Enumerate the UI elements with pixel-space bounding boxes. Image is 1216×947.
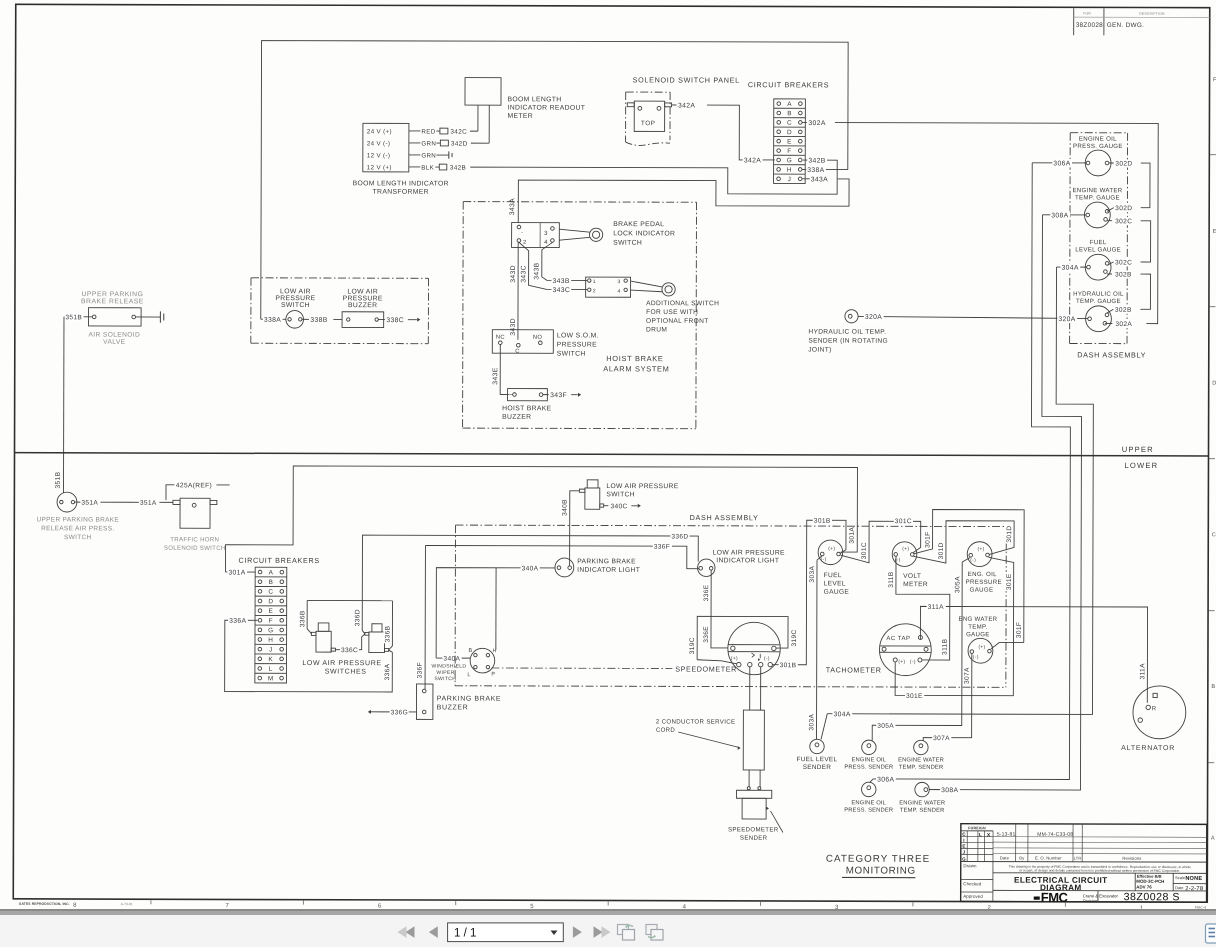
wire 342D (GRN) [409, 142, 420, 144]
svg-text:336B: 336B [384, 625, 391, 642]
svg-text:308A: 308A [1051, 212, 1068, 219]
low air pressure indicator light [698, 559, 715, 576]
2 conductor service cord [743, 710, 764, 770]
svg-text:Revisions: Revisions [1122, 856, 1141, 861]
svg-text:A-73-81: A-73-81 [121, 902, 133, 906]
low air pressure buzzer (upper) [342, 312, 384, 328]
previous-page button [429, 926, 438, 938]
wire 343A [802, 178, 810, 180]
svg-text:(+): (+) [731, 656, 738, 662]
svg-text:L: L [467, 672, 470, 678]
svg-text:INDICATOR LIGHT: INDICATOR LIGHT [577, 567, 640, 574]
svg-text:311A: 311A [928, 604, 945, 611]
wire 338C [378, 319, 384, 321]
svg-text:LOW AIR PRESSURE: LOW AIR PRESSURE [606, 483, 678, 490]
svg-text:A: A [787, 101, 792, 108]
svg-text:E: E [1213, 229, 1216, 235]
svg-text:Division: Division [1083, 898, 1098, 903]
svg-text:336D: 336D [671, 533, 688, 540]
svg-text:351B: 351B [65, 314, 82, 321]
windshield wiper switch [470, 648, 495, 673]
svg-text:Approved: Approved [963, 894, 983, 899]
svg-text:C: C [1212, 532, 1216, 538]
svg-text:VOLT: VOLT [903, 573, 921, 580]
svg-text:304A: 304A [833, 711, 850, 718]
svg-text:338C: 338C [386, 317, 404, 324]
svg-text:TEMP.: TEMP. [968, 624, 987, 631]
wire 336F [425, 545, 698, 568]
wire 340C [604, 505, 609, 507]
wire 340B [570, 491, 580, 566]
svg-text:NONE: NONE [1185, 876, 1202, 882]
svg-text:3: 3 [544, 231, 548, 237]
svg-text:JOINT): JOINT) [808, 347, 831, 354]
svg-text:38Z0028 S: 38Z0028 S [1124, 891, 1180, 903]
svg-text:LOWER: LOWER [1124, 461, 1158, 470]
eng oil pressure gauge (lower) [967, 542, 992, 567]
wire 338A label at switch [261, 318, 286, 320]
wire 336B rail [307, 599, 392, 601]
svg-text:ENG. OIL: ENG. OIL [968, 571, 997, 578]
svg-text:320A: 320A [1058, 316, 1075, 323]
svg-text:340A: 340A [522, 565, 539, 572]
wire wiper H pin [495, 568, 497, 650]
svg-text:304A: 304A [1062, 265, 1079, 272]
svg-text:CIRCUIT BREAKERS: CIRCUIT BREAKERS [238, 556, 319, 565]
svg-text:340A: 340A [443, 656, 460, 663]
svg-text:343B: 343B [552, 278, 569, 285]
svg-text:or in part, of design and deta: or in part, of design and details contai… [1019, 868, 1180, 872]
svg-text:MOD-3C-PCH: MOD-3C-PCH [1136, 879, 1164, 884]
svg-text:351A: 351A [140, 500, 157, 507]
svg-text:306A: 306A [1053, 160, 1070, 167]
svg-text:DESCRIPTION: DESCRIPTION [1139, 12, 1165, 16]
solenoid switch panel (dashed enclosure) [626, 91, 670, 93]
svg-text:Date: Date [1175, 885, 1184, 890]
low air pressure switch L2 (solenoid) [372, 624, 382, 632]
svg-text:-: - [521, 230, 523, 236]
svg-text:302C: 302C [1115, 259, 1132, 266]
svg-text:P: P [491, 672, 495, 678]
svg-text:306A: 306A [877, 776, 894, 783]
wire 302A [802, 121, 807, 123]
wire 301B [772, 520, 846, 665]
dash assembly enclosure (upper) [1070, 132, 1127, 134]
svg-text:ENGINE WATER: ENGINE WATER [1072, 187, 1122, 194]
svg-text:343D: 343D [510, 265, 517, 283]
additional switch (optional front drum) [586, 277, 631, 297]
speedometer sender [737, 790, 772, 798]
svg-text:GAUGE: GAUGE [966, 631, 990, 638]
svg-text:BLK: BLK [421, 164, 434, 171]
wire 342B (BLK) [409, 166, 420, 168]
svg-text:301A: 301A [228, 569, 245, 576]
wire 351B [64, 316, 92, 318]
svg-text:2: 2 [523, 240, 526, 246]
wire 308A [1042, 214, 1085, 216]
svg-text:LEVEL: LEVEL [824, 580, 846, 587]
svg-text:(-): (-) [821, 557, 827, 563]
svg-text:DASH ASSEMBLY: DASH ASSEMBLY [1077, 350, 1146, 359]
svg-text:305A: 305A [954, 576, 961, 593]
svg-text:B: B [269, 579, 274, 586]
svg-text:3: 3 [617, 279, 620, 285]
svg-text:(-): (-) [764, 656, 770, 662]
svg-text:PRESS. SENDER: PRESS. SENDER [844, 765, 893, 771]
svg-text:C: C [268, 589, 273, 596]
low air switch/buzzer enclosure (dashed) [251, 277, 428, 279]
svg-text:TEMP. SENDER: TEMP. SENDER [900, 808, 945, 814]
svg-text:D: D [787, 129, 792, 136]
wire 307A [971, 654, 973, 658]
svg-text:SWITCH: SWITCH [64, 534, 91, 541]
svg-text:ADV 76: ADV 76 [1136, 884, 1152, 889]
svg-text:SENDER: SENDER [803, 764, 832, 771]
wire 336G [370, 711, 417, 713]
svg-text:24 V (+): 24 V (+) [367, 128, 392, 135]
svg-text:ENGINE WATER: ENGINE WATER [898, 757, 944, 763]
svg-text:C: C [515, 349, 520, 355]
svg-text:CIRCUIT BREAKERS: CIRCUIT BREAKERS [748, 80, 829, 89]
svg-text:BRAKE RELEASE: BRAKE RELEASE [81, 298, 144, 305]
svg-text:TACHOMETER: TACHOMETER [826, 665, 882, 674]
svg-text:1 / 1: 1 / 1 [454, 928, 476, 940]
svg-text:301B: 301B [780, 662, 797, 669]
svg-text:338B: 338B [310, 317, 327, 324]
svg-text:L: L [979, 832, 982, 838]
svg-text:G: G [787, 157, 792, 164]
svg-text:TOP: TOP [641, 120, 656, 127]
UPPER/LOWER divider [15, 453, 1209, 456]
speedometer [728, 622, 781, 675]
svg-text:342B: 342B [808, 158, 825, 165]
svg-text:311B: 311B [942, 638, 949, 655]
svg-text:G: G [268, 627, 273, 634]
svg-text:SWITCH: SWITCH [606, 491, 635, 498]
svg-text:BOOM LENGTH INDICATOR: BOOM LENGTH INDICATOR [353, 180, 449, 187]
speedometer label [672, 664, 737, 674]
svg-text:319C: 319C [791, 629, 798, 646]
svg-text:METER: METER [507, 113, 533, 120]
svg-text:LEVEL GAUGE: LEVEL GAUGE [1075, 246, 1121, 253]
svg-text:GRN: GRN [421, 140, 436, 147]
engine water temp sender 2 [915, 782, 929, 796]
engine oil press sender 1 [862, 740, 876, 754]
svg-text:TEMP. GAUGE: TEMP. GAUGE [1075, 194, 1120, 201]
svg-text:H: H [787, 167, 792, 174]
svg-text:B: B [787, 110, 792, 117]
wire 301F [991, 642, 1000, 649]
svg-text:GRN: GRN [421, 152, 436, 159]
svg-text:24 V (-): 24 V (-) [367, 140, 390, 147]
wire 320A [858, 316, 1087, 318]
wire GRN (ground) [409, 154, 420, 156]
parking brake indicator light [555, 558, 574, 577]
svg-text:342D: 342D [451, 141, 468, 148]
svg-text:343E: 343E [492, 367, 499, 384]
wire 336E [711, 570, 728, 648]
svg-text:E. O. Number: E. O. Number [1035, 855, 1062, 860]
svg-text:340B: 340B [562, 499, 569, 516]
svg-text:ADDITIONAL SWITCH: ADDITIONAL SWITCH [646, 300, 719, 307]
wire 343C [519, 242, 587, 289]
svg-text:PARKING BRAKE: PARKING BRAKE [437, 696, 501, 703]
svg-text:J: J [788, 176, 792, 183]
svg-text:F: F [269, 618, 273, 625]
svg-text:A: A [269, 569, 274, 576]
wire 336D drop [361, 601, 363, 631]
volt meter [892, 542, 917, 567]
svg-text:PRESSURE: PRESSURE [557, 341, 597, 348]
svg-text:311A: 311A [1139, 663, 1146, 680]
next-page button [573, 926, 582, 938]
svg-text:DASH ASSEMBLY: DASH ASSEMBLY [690, 513, 759, 522]
svg-text:336A: 336A [384, 663, 391, 680]
svg-text:ENGINE OIL: ENGINE OIL [1079, 136, 1117, 143]
svg-text:4: 4 [544, 240, 548, 246]
solenoid switch panel body [634, 101, 664, 131]
svg-text:343A: 343A [509, 198, 516, 215]
svg-text:SWITCH: SWITCH [613, 240, 642, 247]
svg-text:B: B [1211, 684, 1215, 690]
svg-text:342A: 342A [678, 102, 695, 109]
svg-text:301F: 301F [1016, 622, 1023, 638]
svg-text:CORD: CORD [656, 727, 676, 734]
wire 303A [817, 556, 822, 561]
svg-text:301F: 301F [925, 531, 932, 547]
page number box [448, 923, 564, 942]
upper parking brake release air press switch [57, 492, 77, 512]
svg-text:E: E [269, 608, 274, 615]
brake pedal indicator lamp [589, 228, 602, 241]
svg-text:GEN. DWG.: GEN. DWG. [1107, 22, 1145, 29]
svg-text:BUZZER: BUZZER [437, 704, 469, 711]
svg-text:(+): (+) [898, 659, 905, 665]
wire 302A at gauge [1105, 322, 1113, 324]
svg-text:NC: NC [496, 335, 505, 341]
boom length indicator readout meter [465, 78, 501, 106]
fuel level gauge (lower) [818, 540, 843, 565]
svg-text:UPPER PARKING: UPPER PARKING [81, 291, 143, 298]
svg-text:MM-74-C33-08: MM-74-C33-08 [1037, 832, 1073, 838]
svg-text:302B: 302B [1115, 307, 1132, 314]
svg-text:NO: NO [533, 335, 543, 341]
svg-text:E: E [787, 138, 792, 145]
low air pressure switch (lower) [587, 480, 598, 488]
svg-text:2 CONDUCTOR SERVICE: 2 CONDUCTOR SERVICE [656, 718, 736, 725]
wire 301A [225, 466, 857, 574]
low S.O.M. pressure switch [492, 330, 553, 354]
svg-text:351A: 351A [81, 500, 98, 507]
wire 301E [895, 557, 1014, 696]
svg-text:12 V (-): 12 V (-) [367, 152, 390, 159]
wire 343F [543, 394, 549, 396]
svg-text:302C: 302C [1115, 218, 1132, 225]
svg-text:301B: 301B [814, 518, 831, 525]
svg-text:Scale: Scale [1175, 875, 1186, 880]
svg-text:4: 4 [617, 289, 620, 295]
svg-text:M: M [268, 675, 274, 682]
svg-text:MONITORING: MONITORING [846, 865, 916, 876]
svg-text:302D: 302D [1115, 205, 1132, 212]
svg-text:(+): (+) [902, 546, 909, 552]
svg-text:FUEL: FUEL [1090, 239, 1107, 246]
svg-text:(-): (-) [973, 654, 979, 660]
svg-text:GAUGE: GAUGE [970, 587, 994, 594]
svg-text:305A: 305A [877, 723, 894, 730]
svg-text:SENDER: SENDER [740, 835, 768, 842]
svg-text:F: F [787, 148, 791, 155]
svg-text:DRUM: DRUM [646, 327, 667, 334]
svg-text:LOW S.O.M.: LOW S.O.M. [557, 332, 599, 339]
wire 338A loop (cab boundary run) [261, 41, 848, 321]
front drum indicator lamp [662, 283, 675, 296]
svg-text:PRESS. GAUGE: PRESS. GAUGE [1073, 143, 1123, 150]
wire 342A [672, 104, 677, 106]
svg-text:TRAFFIC HORN: TRAFFIC HORN [170, 536, 219, 543]
wire 308A stub [929, 789, 939, 791]
svg-text:L: L [269, 666, 273, 673]
svg-text:301D: 301D [938, 542, 945, 559]
svg-text:301C: 301C [895, 518, 912, 525]
wire 336D [362, 535, 698, 601]
wire 336A [225, 620, 393, 692]
parking brake buzzer [416, 684, 432, 719]
svg-text:HYDRAULIC OIL: HYDRAULIC OIL [1073, 291, 1124, 298]
boom length indicator transformer [363, 123, 409, 172]
svg-text:301D: 301D [1006, 525, 1013, 542]
svg-text:FOREIGN: FOREIGN [968, 826, 986, 830]
svg-text:307A: 307A [964, 667, 971, 684]
wire 304A [1057, 266, 1087, 268]
svg-text:336A: 336A [229, 618, 246, 625]
svg-text:AC TAP: AC TAP [886, 636, 910, 642]
circuit breaker panel (upper) [774, 99, 806, 184]
svg-text:SWITCH: SWITCH [434, 676, 456, 682]
svg-text:FOR USE WITH: FOR USE WITH [646, 309, 698, 316]
top-right reference table [1073, 8, 1075, 35]
svg-text:HOIST BRAKE: HOIST BRAKE [502, 405, 552, 412]
svg-text:AIR SOLENOID: AIR SOLENOID [88, 332, 140, 339]
svg-text:302A: 302A [1115, 321, 1132, 328]
svg-text:301C: 301C [861, 542, 868, 559]
svg-text:ENGINE WATER: ENGINE WATER [899, 800, 945, 806]
hoist brake alarm system enclosure [463, 201, 696, 204]
svg-text:BRAKE PEDAL: BRAKE PEDAL [613, 221, 664, 228]
svg-text:WINDSHIELD: WINDSHIELD [432, 664, 467, 670]
svg-text:WIPER: WIPER [436, 670, 454, 676]
svg-text:PARKING BRAKE: PARKING BRAKE [577, 558, 636, 565]
next-view icon [646, 925, 657, 935]
svg-text:GATES REPRODUCTION, INC.: GATES REPRODUCTION, INC. [19, 902, 70, 906]
svg-text:INDICATOR LIGHT: INDICATOR LIGHT [716, 557, 779, 564]
svg-text:OPTIONAL FRONT: OPTIONAL FRONT [646, 318, 709, 325]
pdf toolbar background [0, 915, 1216, 947]
svg-text:343F: 343F [550, 392, 567, 399]
svg-text:303A: 303A [808, 714, 815, 731]
svg-text:SPEEDOMETER: SPEEDOMETER [728, 826, 779, 833]
svg-text:By: By [1019, 855, 1025, 860]
svg-text:301A: 301A [849, 527, 856, 544]
svg-text:HYDRAULIC OIL TEMP.: HYDRAULIC OIL TEMP. [808, 329, 886, 336]
svg-text:D: D [1212, 381, 1216, 387]
air solenoid valve [88, 308, 141, 326]
svg-text:J: J [963, 850, 966, 855]
svg-text:HOIST BRAKE: HOIST BRAKE [606, 354, 663, 363]
circuit breaker panel (lower) [255, 567, 287, 683]
svg-text:FUEL: FUEL [824, 572, 842, 579]
traffic horn solenoid switch [180, 498, 210, 528]
svg-text:H: H [268, 637, 273, 644]
previous-view icon [618, 925, 629, 935]
wire 343B [542, 242, 587, 280]
svg-text:TRANSFORMER: TRANSFORMER [373, 189, 429, 196]
svg-text:1: 1 [593, 279, 596, 285]
svg-text:UPPER: UPPER [1122, 445, 1154, 454]
svg-text:E: E [962, 844, 965, 849]
svg-text:SOLENOID SWITCH PANEL: SOLENOID SWITCH PANEL [633, 75, 740, 84]
wire 301C [841, 521, 921, 563]
brake pedal lock indicator switch [512, 223, 560, 248]
svg-text:303A: 303A [809, 566, 816, 583]
svg-text:BUZZER: BUZZER [502, 414, 531, 421]
svg-text:LOW AIR PRESSURE: LOW AIR PRESSURE [713, 549, 785, 556]
svg-text:425A(REF): 425A(REF) [176, 482, 212, 489]
wire 338A at breaker H [802, 168, 848, 170]
wire 311A [920, 606, 1147, 702]
speedometer terminals [737, 662, 741, 666]
svg-text:FMC: FMC [1041, 890, 1069, 905]
svg-text:2: 2 [593, 288, 596, 294]
svg-text:J: J [269, 646, 273, 653]
svg-text:336F: 336F [654, 544, 670, 551]
low air pressure switch L1 (solenoid) [318, 623, 329, 631]
wire 342C (RED) [409, 130, 420, 132]
svg-text:ALARM SYSTEM: ALARM SYSTEM [603, 364, 669, 373]
svg-text:G: G [962, 857, 966, 862]
wire 336C [335, 649, 339, 651]
hydraulic oil temp sender [845, 310, 858, 323]
svg-text:343C: 343C [520, 265, 527, 283]
svg-text:302D: 302D [1115, 161, 1132, 168]
title block [961, 824, 1207, 902]
svg-text:351B: 351B [55, 471, 62, 488]
svg-text:ENG WATER: ENG WATER [958, 616, 997, 623]
svg-text:C: C [787, 120, 792, 127]
svg-text:336D: 336D [354, 609, 361, 626]
wire 343E [499, 344, 501, 394]
engine water temp sender 1 [914, 740, 928, 754]
svg-text:336G: 336G [391, 709, 409, 716]
wire 343D [517, 242, 519, 339]
tachometer [879, 624, 931, 676]
svg-text:D: D [268, 598, 273, 605]
svg-text:336C: 336C [341, 647, 358, 654]
svg-text:ALTERNATOR: ALTERNATOR [1121, 745, 1175, 752]
svg-text:5-13-81: 5-13-81 [997, 832, 1016, 838]
page bottom edge strip [0, 909, 1216, 915]
low air pressure switch (upper) [286, 311, 304, 329]
svg-text:VALVE: VALVE [103, 339, 126, 346]
svg-text:320A: 320A [865, 314, 882, 321]
svg-text:ENGINE OIL: ENGINE OIL [851, 800, 886, 806]
svg-text:SWITCH: SWITCH [281, 302, 310, 309]
wire 425A(REF) [166, 485, 174, 500]
svg-text:LOW AIR PRESSURE: LOW AIR PRESSURE [302, 660, 381, 667]
svg-text:SWITCH: SWITCH [557, 351, 586, 358]
eng water temp gauge (lower) [968, 638, 993, 663]
svg-text:SWITCHES: SWITCHES [325, 669, 367, 676]
